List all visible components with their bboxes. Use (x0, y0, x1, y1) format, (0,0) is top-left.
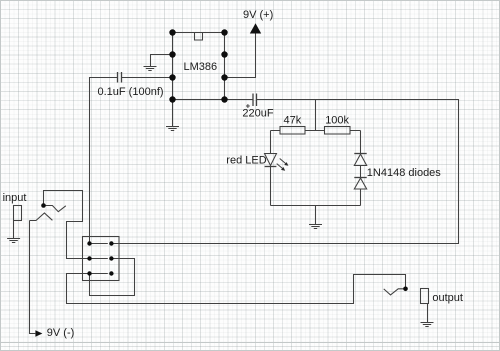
plus sign of C2 (246, 104, 250, 108)
wire C1 to pin3-left (122, 77, 173, 79)
switch lever row1 (90, 243, 108, 245)
switch lever row3 (90, 273, 108, 275)
node switch row1 left (87, 241, 91, 245)
wire pin4-right to C2 (225, 99, 254, 101)
input ring contact lever (30, 213, 53, 221)
node switch row2 right (109, 256, 113, 260)
arrow 9V plus (250, 23, 261, 33)
diode D2 1N4148 triangle (354, 154, 366, 165)
svg-text:9V (-): 9V (-) (47, 327, 75, 339)
LED emission arrow 1 (280, 159, 289, 166)
op-amp U1 notch (195, 33, 203, 41)
wire between diodes (360, 166, 362, 178)
wire diodes to bottom rail (360, 189, 362, 206)
output jack J2 terminal (421, 289, 429, 304)
svg-text:220uF: 220uF (242, 107, 273, 119)
capacitor C1 0.1uF plates (118, 72, 122, 83)
ground (pin 2) (144, 67, 157, 71)
wire resistor row (271, 130, 361, 132)
LED emission arrow 2 (277, 164, 286, 171)
op-amp U1 LM386 body (173, 33, 225, 100)
node switch row3 left (87, 271, 91, 275)
pin dot U1 right 1 (221, 29, 227, 35)
pin dot U1 left 3 (169, 74, 175, 80)
wire crossover loop row3-left to row2-right (90, 259, 135, 296)
pin dot U1 right 3 (221, 74, 227, 80)
svg-text:0.1uF (100nf): 0.1uF (100nf) (98, 86, 164, 98)
wire 0.1uF left segment (90, 78, 118, 244)
wire 9V+ to pin3-right (225, 34, 256, 78)
resistor R2 100k (325, 127, 351, 135)
svg-text:output: output (432, 292, 463, 304)
LED D1 red triangle (265, 154, 277, 166)
svg-text:input: input (3, 192, 27, 204)
svg-text:47k: 47k (284, 114, 302, 126)
wire LED to bottom rail (270, 167, 272, 206)
input tip contact lever (44, 206, 66, 212)
wire stub to mid ground (315, 206, 317, 225)
output tip contact lever (384, 289, 406, 295)
ground (input jack) (7, 239, 20, 243)
switch lever row2 (90, 258, 108, 260)
ground (below U1) (166, 127, 179, 131)
wire main rail C2 to right side down to switch row1 (111, 100, 458, 244)
capacitor C2 220uF plates (253, 94, 257, 107)
svg-text:100k: 100k (325, 114, 349, 126)
pin dot U1 left 4 (169, 96, 175, 102)
svg-text:red LED: red LED (226, 154, 266, 166)
input jack J1 tip terminal (14, 206, 22, 221)
diode D3 1N4148 triangle (354, 178, 366, 189)
wire input tip to switch row2-left (44, 191, 90, 259)
diode D3 1N4148 bar (354, 177, 366, 179)
wire pin4-left down to ground (172, 100, 174, 127)
wire J1 to ground (13, 221, 15, 239)
svg-text:LM386: LM386 (184, 61, 218, 73)
wire R2 right down to diodes (360, 131, 362, 154)
bottom margin line (0, 342, 500, 344)
switch S1 body (83, 237, 120, 281)
node output tip (403, 287, 408, 292)
wire input ring to 9V minus (30, 221, 36, 334)
node switch row2 left (87, 256, 91, 260)
svg-text:1N4148 diodes: 1N4148 diodes (367, 167, 442, 179)
node switch row1 right (109, 241, 113, 245)
wire mid vertical to resistor row (315, 100, 317, 131)
ground (output jack) (421, 323, 434, 327)
pin dot U1 right 4 (221, 96, 227, 102)
svg-text:9V (+): 9V (+) (243, 9, 273, 21)
arrow 9V minus (35, 330, 42, 336)
wire pin2-left to ground (151, 55, 173, 67)
LED D1 cathode bar (265, 166, 277, 168)
pin dot U1 left 1 (169, 29, 175, 35)
wire row3-left to bottom rail to output contact (67, 274, 406, 304)
wire bottom rail of LED/diode loop (271, 205, 361, 207)
node switch row3 right (109, 271, 113, 275)
pin dot U1 right 2 (221, 51, 227, 57)
ground (mid, below LED loop) (309, 225, 322, 229)
node input tip (41, 203, 46, 208)
resistor R1 47k (280, 127, 305, 135)
pin dot U1 left 2 (169, 51, 175, 57)
diode D2 1N4148 bar (354, 153, 366, 155)
wire R1 left down to LED (270, 131, 272, 154)
wire J2 to ground (427, 304, 429, 323)
